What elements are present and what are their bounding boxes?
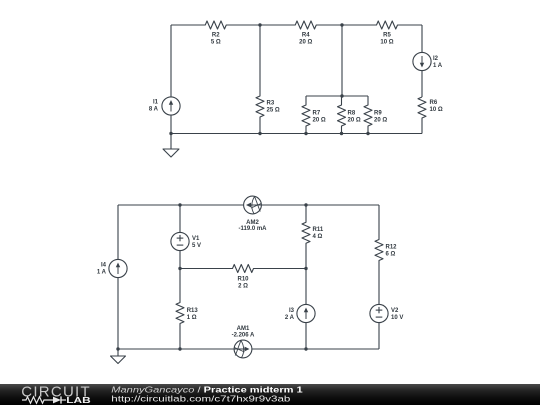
svg-text:LAB: LAB <box>66 397 90 405</box>
svg-text:5 Ω: 5 Ω <box>211 40 221 46</box>
svg-text:-2.206 A: -2.206 A <box>232 333 255 339</box>
resistor R4 <box>260 21 342 46</box>
svg-text:10 V: 10 V <box>391 315 403 321</box>
wire: top rail left segment <box>118 204 180 206</box>
node: R11/R10/I3 junction <box>304 267 307 270</box>
svg-text:1 Ω: 1 Ω <box>187 315 197 321</box>
svg-text:20 Ω: 20 Ω <box>299 40 312 46</box>
resistor R8 <box>338 96 361 134</box>
svg-text:R8: R8 <box>348 111 356 117</box>
svg-text:R6: R6 <box>430 100 438 106</box>
voltage source V2 <box>370 304 403 349</box>
svg-text:R10: R10 <box>237 277 249 283</box>
node: I1/ground junction <box>169 132 172 135</box>
CircuitLab logo: diode symbol <box>53 396 66 403</box>
svg-text:10 Ω: 10 Ω <box>430 107 443 113</box>
svg-text:R3: R3 <box>267 101 275 107</box>
svg-text:4 Ω: 4 Ω <box>313 234 323 240</box>
svg-text:R2: R2 <box>212 33 220 39</box>
svg-text:25 Ω: 25 Ω <box>267 108 280 114</box>
svg-text:20 Ω: 20 Ω <box>313 118 326 124</box>
node: R13 bottom junction <box>178 347 181 350</box>
wire: top rail to AM2 <box>180 204 243 206</box>
resistor R5 <box>342 21 422 46</box>
svg-text:I1: I1 <box>153 100 159 106</box>
CircuitLab logo: CIRCUIT wordmark <box>21 383 91 400</box>
svg-text:8 A: 8 A <box>149 107 159 113</box>
svg-text:-119.0 mA: -119.0 mA <box>238 226 267 232</box>
resistor R2 <box>171 21 260 46</box>
node: R7 bottom junction <box>304 132 307 135</box>
CircuitLab logo: LAB wordmark <box>66 397 90 405</box>
wire: top circuit bottom rail <box>171 133 422 135</box>
svg-text:R13: R13 <box>187 308 199 314</box>
svg-text:2 A: 2 A <box>285 315 295 321</box>
wire: AM2 to R11 node <box>262 204 306 206</box>
current source I2 <box>413 25 443 97</box>
resistor R13 <box>176 269 198 350</box>
svg-text:I3: I3 <box>289 308 295 314</box>
ammeter AM1 <box>232 326 255 358</box>
wire: top rail right segment <box>306 204 379 206</box>
svg-text:I4: I4 <box>101 263 107 269</box>
node: R4/R5 junction <box>340 23 343 26</box>
node: V1 top junction <box>178 203 181 206</box>
svg-text:R7: R7 <box>313 111 321 117</box>
svg-text:10 Ω: 10 Ω <box>380 40 393 46</box>
svg-text:R5: R5 <box>383 33 391 39</box>
footer bar <box>0 384 540 405</box>
svg-text:1 A: 1 A <box>433 63 443 69</box>
footer url <box>111 395 291 404</box>
node: R11 top junction <box>304 203 307 206</box>
svg-text:R11: R11 <box>313 227 324 233</box>
svg-text:V1: V1 <box>192 236 200 242</box>
CircuitLab logo: resistor squiggle <box>22 397 53 403</box>
svg-text:AM1: AM1 <box>237 326 250 332</box>
svg-text:5 V: 5 V <box>192 243 201 249</box>
svg-text:I2: I2 <box>433 56 439 62</box>
svg-text:20 Ω: 20 Ω <box>374 118 387 124</box>
wire: R4/R5 node down to R7-R9 bus <box>341 25 343 96</box>
wire: R7-R9 top bus <box>306 95 368 97</box>
svg-text:R4: R4 <box>302 33 310 39</box>
resistor R9 <box>364 96 387 134</box>
voltage source V1 <box>171 205 201 269</box>
node: I3 bottom junction <box>304 347 307 350</box>
current source I3 <box>285 269 315 350</box>
svg-text:1 A: 1 A <box>97 270 107 276</box>
svg-text:2 Ω: 2 Ω <box>238 284 248 290</box>
ground (bottom circuit) <box>111 349 126 364</box>
node: ground junction <box>116 347 119 350</box>
svg-text:R9: R9 <box>374 111 382 117</box>
resistor R6 <box>418 97 443 134</box>
svg-text:http://circuitlab.com/c7t7hx9r: http://circuitlab.com/c7t7hx9r9v3ab <box>111 395 291 404</box>
resistor R11 <box>302 205 324 269</box>
resistor R12 <box>375 205 397 304</box>
node: V1/R10/R13 junction <box>178 267 181 270</box>
node: R9 bottom junction <box>366 132 369 135</box>
ammeter AM2 <box>238 196 267 232</box>
wire: bottom rail left segment <box>118 348 234 350</box>
svg-text:20 Ω: 20 Ω <box>348 118 361 124</box>
footer title: author / schematic name <box>111 386 303 395</box>
resistor R3 <box>256 25 280 134</box>
node: R2/R4/R3 junction <box>258 23 261 26</box>
svg-text:6 Ω: 6 Ω <box>386 252 396 258</box>
current source I4 <box>97 205 127 349</box>
current source I1 <box>149 25 180 134</box>
ground (top circuit) <box>163 134 179 158</box>
svg-text:R12: R12 <box>386 245 398 251</box>
resistor R10 <box>180 265 306 290</box>
resistor R7 <box>302 96 326 134</box>
svg-text:V2: V2 <box>391 308 399 314</box>
svg-text:MannyGancayco / Practice midte: MannyGancayco / Practice midterm 1 <box>111 386 303 395</box>
node: R8 bottom junction <box>340 132 343 135</box>
wire: bottom rail right segment <box>252 348 379 350</box>
node: R3 bottom junction <box>258 132 261 135</box>
node: bus junction <box>340 94 343 97</box>
